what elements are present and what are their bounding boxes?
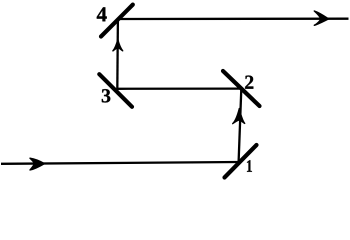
wire beam mirror2 to mirror3 (middle horizontal)	[117, 87, 241, 90]
label 2	[245, 76, 253, 89]
mirror 2	[223, 71, 260, 106]
mirror 1	[225, 145, 257, 178]
arrow up on right vertical beam	[233, 109, 245, 124]
wire beam mirror1 to mirror2 (right vertical)	[239, 89, 242, 162]
mirror 3	[99, 74, 132, 107]
arrow output beam right-pointing	[314, 11, 328, 25]
label 4	[97, 7, 107, 21]
wire output beam (top horizontal)	[118, 18, 349, 21]
arrow up on left vertical beam	[113, 40, 123, 51]
label 3	[102, 89, 111, 102]
wire input beam (bottom horizontal)	[1, 162, 239, 164]
label 1	[247, 160, 252, 172]
mirror 4	[101, 5, 133, 37]
arrow input beam right-pointing	[30, 158, 44, 170]
wire beam mirror3 to mirror4 (left vertical)	[116, 19, 119, 91]
